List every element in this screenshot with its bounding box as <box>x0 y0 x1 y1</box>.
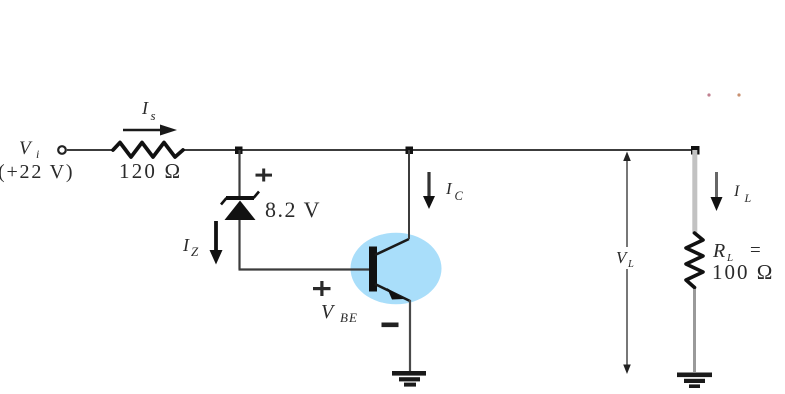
svg-text:8.2 V: 8.2 V <box>265 197 321 222</box>
svg-text:L: L <box>744 191 752 205</box>
svg-text:s: s <box>151 108 156 123</box>
svg-text:(+22 V): (+22 V) <box>0 161 74 183</box>
svg-text:R: R <box>712 240 725 262</box>
svg-text:BE: BE <box>340 310 358 325</box>
svg-text:I: I <box>733 183 740 200</box>
svg-text:i: i <box>36 147 39 161</box>
svg-text:Z: Z <box>191 244 199 259</box>
svg-text:C: C <box>455 189 464 203</box>
svg-text:I: I <box>141 98 149 118</box>
svg-text:100 Ω: 100 Ω <box>712 260 774 284</box>
svg-text:120 Ω: 120 Ω <box>119 159 182 183</box>
svg-text:I: I <box>182 235 190 255</box>
svg-text:=: = <box>750 240 761 261</box>
svg-text:L: L <box>627 259 634 270</box>
